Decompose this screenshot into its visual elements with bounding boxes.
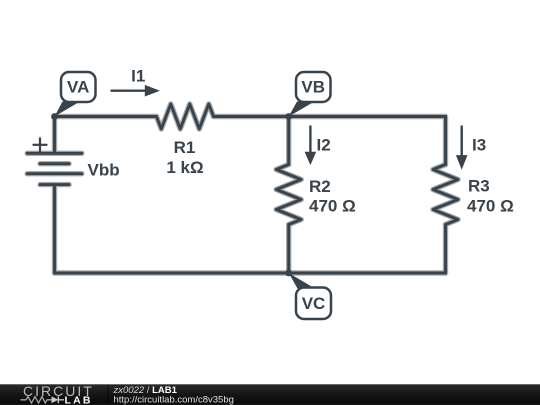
node VC callout box [296, 288, 331, 320]
current arrow I3 shaft [461, 127, 463, 156]
net halo pass [27, 104, 458, 273]
current arrow I3 head [456, 155, 468, 170]
footer watermark bar [0, 384, 540, 405]
svg-text:470 Ω: 470 Ω [467, 197, 514, 216]
node VA junction dot [51, 113, 58, 120]
net main pass [27, 104, 458, 273]
node VB callout box [296, 72, 331, 102]
CircuitLab logo mini schematic wire and resistor [21, 397, 52, 403]
current arrow I1 head [145, 85, 160, 97]
svg-text:http://circuitlab.com/c8v35bg: http://circuitlab.com/c8v35bg [114, 394, 234, 405]
node VC junction dot [285, 270, 292, 277]
svg-text:I2: I2 [317, 135, 331, 154]
svg-text:R2: R2 [309, 177, 331, 196]
svg-text:Vbb: Vbb [88, 161, 120, 180]
svg-text:I1: I1 [131, 67, 145, 86]
node VB junction dot [285, 113, 292, 120]
svg-text:VA: VA [67, 78, 89, 97]
node VC callout pointer [289, 273, 315, 289]
svg-text:I3: I3 [472, 135, 486, 154]
node VA callout box [61, 72, 96, 102]
svg-text:VC: VC [302, 294, 326, 313]
svg-text:R3: R3 [468, 177, 490, 196]
footer divider [107, 385, 109, 404]
node VA callout pointer [55, 102, 81, 117]
current arrow I2 head [305, 152, 317, 165]
svg-text:R1: R1 [174, 138, 196, 157]
svg-text:VB: VB [301, 78, 325, 97]
node VB callout pointer [289, 102, 315, 117]
current arrow I1 shaft [112, 89, 146, 91]
svg-text:1 kΩ: 1 kΩ [166, 158, 203, 177]
svg-text:470 Ω: 470 Ω [309, 197, 356, 216]
svg-text:LAB: LAB [65, 394, 93, 405]
CircuitLab logo mini diode [52, 396, 59, 403]
current arrow I2 shaft [309, 127, 311, 153]
